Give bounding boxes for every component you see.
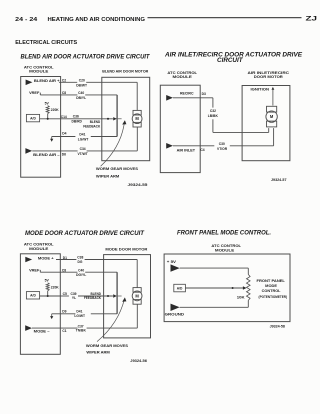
svg-text:MODULE: MODULE (215, 248, 235, 252)
svg-text:BLEND AIR –: BLEND AIR – (33, 153, 60, 157)
svg-text:(POTENTIOMETER): (POTENTIOMETER) (259, 295, 288, 299)
potentiometer 10K front panel mode control (247, 274, 251, 300)
svg-text:HEATING AND AIR CONDITIONING: HEATING AND AIR CONDITIONING (48, 17, 146, 23)
label AIR INLET/RECIRC DOOR MOTOR (248, 71, 290, 79)
wiper contact arrow (mode) (113, 294, 117, 297)
svg-text:BLEND AIR DOOR ACTUATOR DRIVE: BLEND AIR DOOR ACTUATOR DRIVE CIRCUIT (21, 54, 151, 61)
svg-text:C2: C2 (62, 79, 66, 83)
svg-text:RECIRC: RECIRC (180, 92, 194, 96)
wiper arm linkage curve (blend) (101, 122, 125, 167)
blend air door motor box (102, 77, 150, 160)
svg-text:C1: C1 (62, 329, 66, 333)
wiper stem dash (blend) (118, 118, 122, 120)
potentiometer track (blend feedback pot) (116, 95, 118, 137)
svg-text:MODE –: MODE – (34, 330, 50, 334)
driver buffer BLEND AIR - (triangle) (25, 148, 32, 154)
wire C20 DB/WT from pin C2 to motor (+) (59, 82, 137, 110)
motor M (blend air door) (132, 110, 142, 127)
label BLEND FEEDBACK (83, 120, 101, 129)
mode door motor box (104, 255, 151, 338)
svg-text:D4: D4 (62, 131, 66, 135)
svg-text:DB/YL: DB/YL (76, 96, 86, 100)
page header: section number and chapter title (15, 17, 145, 23)
wiper contact arrow on feedback wire (113, 117, 117, 120)
wire 5V junction to feedback node (40, 114, 61, 119)
ground arrow inside module (mode) (50, 314, 53, 319)
svg-text:C32: C32 (210, 109, 216, 113)
svg-text:C8: C8 (62, 91, 66, 95)
svg-text:D41: D41 (76, 310, 82, 314)
svg-text:VT/WT: VT/WT (77, 152, 87, 156)
ground buffer (triangle) (171, 304, 180, 311)
svg-text:CONTROL: CONTROL (262, 289, 281, 293)
svg-text:D9: D9 (62, 310, 66, 314)
svg-text:DB/WT: DB/WT (76, 84, 87, 88)
driver buffer AIR INLET (triangle) (166, 143, 173, 149)
svg-text:WIPER ARM: WIPER ARM (86, 351, 109, 355)
wiper stem dash (mode) (118, 295, 122, 297)
svg-text:CIRCUIT: CIRCUIT (217, 57, 244, 64)
wire C32 LB/BK from pin D3 to motor (173, 98, 269, 133)
motor M (air inlet/recirc door) (266, 106, 277, 127)
A/D converter box (26, 114, 39, 121)
junction dot feedback node (47, 118, 49, 120)
wire +5V to potentiometer top (180, 268, 249, 274)
svg-text:5V: 5V (45, 101, 50, 105)
svg-text:+ 5V: + 5V (167, 260, 177, 264)
svg-text:J9324-58: J9324-58 (270, 324, 285, 328)
svg-text:FEEDBACK: FEEDBACK (83, 124, 101, 128)
wire C34 VT/WT from pin D6 to motor (-) (32, 127, 137, 151)
air inlet/recirc door motor box (242, 86, 290, 161)
svg-text:J9324-56: J9324-56 (130, 359, 147, 363)
svg-text:5V: 5V (45, 279, 50, 283)
ATC control module box (blend) (21, 77, 61, 178)
svg-text:MODE DOOR MOTOR: MODE DOOR MOTOR (105, 247, 148, 251)
svg-text:A/D: A/D (30, 117, 36, 121)
svg-text:IGNITION: IGNITION (251, 87, 270, 91)
splice dot on feedback wire (107, 118, 109, 120)
label BLEND FEEDBACK (mode) (84, 292, 102, 300)
label WORM GEAR MOVES WIPER ARM (blend) (96, 167, 139, 178)
wire C40 DB/YL from pin C8 to potentiometer top (40, 94, 117, 96)
svg-text:C37: C37 (78, 324, 84, 328)
wire C39 YL mode feedback from pin C5 to wiper (60, 295, 113, 297)
svg-text:C4: C4 (200, 148, 204, 152)
svg-text:TN/BK: TN/BK (76, 329, 87, 333)
diagram 2 title: AIR INLET/RECIRC DOOR ACTUATOR DRIVE CIRCUIT (164, 52, 303, 65)
svg-text:MODULE: MODULE (173, 75, 193, 79)
svg-text:24 - 24: 24 - 24 (15, 17, 38, 23)
svg-text:D6: D6 (62, 152, 66, 156)
wire C40 DG/YL from pin C8 to potentiometer top (mode) (40, 271, 117, 273)
svg-text:VREF: VREF (29, 268, 39, 272)
wire C30 VT/OR from pin C4 to motor (173, 128, 274, 146)
wire D41 LG/WT ground return from pin D4 (52, 136, 117, 138)
svg-text:BLEND AIR DOOR MOTOR: BLEND AIR DOOR MOTOR (102, 69, 148, 73)
header rule (148, 17, 302, 19)
svg-text:C14: C14 (61, 115, 67, 119)
junction dot feedback node (mode) (47, 295, 49, 297)
svg-text:YL: YL (72, 296, 76, 300)
svg-text:D1: D1 (63, 256, 67, 260)
ground arrow inside module (blend) (50, 137, 53, 142)
svg-text:BLEND: BLEND (90, 120, 101, 124)
driver buffer MODE + (triangle) (25, 257, 32, 263)
svg-text:J9324-55: J9324-55 (128, 183, 148, 187)
svg-text:D3: D3 (202, 92, 206, 96)
label FRONT PANEL MODE CONTROL (POTENTIOMETER) (257, 279, 288, 299)
motor M (mode door) (132, 288, 142, 305)
svg-text:C40: C40 (78, 91, 84, 95)
label WORM GEAR MOVES WIPER ARM (mode) (86, 344, 129, 355)
svg-text:VT/OR: VT/OR (217, 147, 228, 151)
A/D converter box (front panel) (174, 284, 186, 292)
svg-text:C38: C38 (77, 255, 83, 259)
svg-text:A/D: A/D (177, 287, 183, 291)
svg-text:LG/WT: LG/WT (74, 314, 85, 318)
ATC control module box (front panel) (164, 254, 290, 322)
svg-text:C8: C8 (62, 268, 66, 272)
wire C36 DB/RD blend feedback from pin C14 to wiper (61, 118, 113, 120)
svg-text:FRONT PANEL MODE CONTROL.: FRONT PANEL MODE CONTROL. (177, 229, 271, 236)
wiper arm arrowhead (blend) (122, 120, 126, 124)
svg-text:C34: C34 (80, 147, 86, 151)
svg-text:C40: C40 (78, 268, 84, 272)
svg-text:WORM GEAR MOVES: WORM GEAR MOVES (96, 167, 139, 171)
svg-text:C5: C5 (63, 292, 67, 296)
svg-text:M: M (270, 114, 274, 119)
svg-text:DOOR MOTOR: DOOR MOTOR (254, 75, 284, 79)
label ATC CONTROL MODULE (mode) (24, 243, 55, 251)
svg-text:FRONT PANEL: FRONT PANEL (257, 279, 285, 283)
potentiometer track (mode feedback pot) (116, 272, 118, 314)
ATC control module box (mode) (20, 254, 60, 354)
svg-text:ZJ: ZJ (306, 15, 318, 22)
svg-text:MODE DOOR ACTUATOR DRIVE CIRCU: MODE DOOR ACTUATOR DRIVE CIRCUIT (25, 230, 145, 237)
svg-text:C36: C36 (73, 114, 79, 118)
svg-text:C30: C30 (219, 142, 225, 146)
svg-text:LB/BK: LB/BK (208, 114, 219, 118)
svg-text:MODE: MODE (265, 284, 278, 288)
svg-text:J9324-57: J9324-57 (271, 178, 287, 182)
svg-text:10K: 10K (237, 295, 245, 299)
VREF pin tick (39, 93, 41, 95)
wire A/D to potentiometer wiper (185, 287, 243, 289)
wire potentiometer bottom to ground (180, 300, 249, 307)
svg-text:AIR INLET: AIR INLET (177, 148, 197, 152)
svg-text:M: M (135, 116, 139, 121)
ATC control module box (recirc) (160, 85, 200, 172)
splice dot on feedback wire (mode) (107, 295, 109, 297)
5V source buffer (triangle) (171, 264, 180, 271)
label ATC CONTROL MODULE (U1 blend) (24, 65, 55, 73)
label IGNITION with up arrow (power feed) (251, 87, 275, 106)
resistor 220K (pull-up) (46, 106, 49, 114)
svg-text:DB/RD: DB/RD (71, 119, 82, 123)
svg-text:MODULE: MODULE (29, 70, 49, 74)
VREF pin tick (mode) (39, 270, 41, 272)
resistor 220K (mode) (46, 283, 49, 291)
svg-text:MODE +: MODE + (38, 257, 54, 261)
svg-text:FEEDBACK: FEEDBACK (84, 296, 102, 300)
label ATC CONTROL MODULE (front panel) (211, 244, 242, 252)
svg-text:C20: C20 (79, 78, 85, 82)
svg-text:GROUND: GROUND (165, 313, 185, 317)
svg-text:DG/YL: DG/YL (76, 273, 86, 277)
svg-text:220K: 220K (51, 285, 60, 289)
svg-text:WORM GEAR MOVES: WORM GEAR MOVES (86, 344, 129, 348)
svg-text:MODULE: MODULE (29, 247, 49, 251)
driver buffer RECIRC (triangle) (166, 95, 173, 101)
wire C37 TN/BK from pin C1 to motor (-) (32, 304, 137, 328)
svg-text:LG/WT: LG/WT (78, 137, 89, 141)
label ATC CONTROL MODULE (recirc) (167, 71, 198, 79)
svg-text:WIPER ARM: WIPER ARM (96, 174, 119, 178)
svg-text:D41: D41 (79, 132, 85, 136)
svg-text:DG: DG (78, 260, 83, 264)
svg-text:A/D: A/D (30, 294, 36, 298)
wire D41 LG/WT ground return from pin D9 (52, 313, 117, 315)
svg-text:VREF: VREF (29, 91, 39, 95)
A/D converter box (mode) (26, 292, 39, 299)
wire C38 DG from pin D1 to motor (+) (56, 260, 137, 288)
wiper arrow (front panel pot) (243, 286, 247, 289)
wiper arm linkage curve (mode) (97, 299, 125, 342)
svg-text:M: M (135, 293, 139, 298)
driver buffer MODE - (triangle) (25, 325, 32, 331)
svg-text:ELECTRICAL CIRCUITS: ELECTRICAL CIRCUITS (15, 40, 77, 46)
svg-text:220K: 220K (51, 108, 60, 112)
splice dot on wiper wire (232, 287, 234, 289)
svg-text:BLEND AIR +: BLEND AIR + (34, 79, 60, 83)
wiper arm arrowhead (mode) (122, 297, 126, 301)
driver buffer BLEND AIR + (triangle) (26, 80, 33, 86)
wire 5V junction to feedback node (mode) (40, 291, 61, 296)
